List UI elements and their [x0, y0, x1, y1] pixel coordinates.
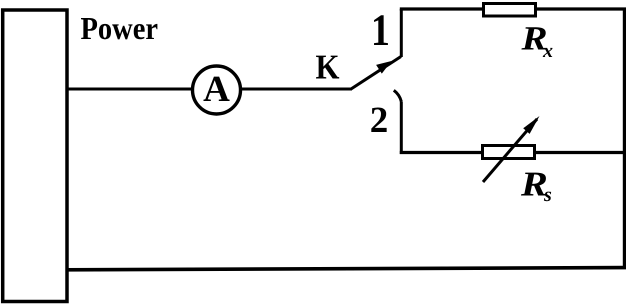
resistor Rx box [484, 4, 536, 17]
ammeter A1 circle [193, 66, 241, 114]
svg-text:K: K [316, 48, 340, 87]
battery / power supply box [3, 10, 67, 302]
switch blade arrowhead [376, 61, 391, 74]
contact 1 lead (vertical from top wire) [400, 9, 403, 57]
svg-text:2: 2 [370, 100, 389, 141]
bottom wire [66, 268, 626, 270]
rheostat Rs box [483, 146, 535, 159]
wire: ammeter to switch pivot [241, 88, 353, 91]
wire: battery to ammeter [66, 88, 194, 91]
contact 2 hook [394, 90, 402, 101]
svg-text:s: s [543, 184, 552, 206]
right vertical wire [623, 9, 626, 268]
switch K blade [351, 57, 401, 90]
svg-text:Power: Power [81, 10, 159, 46]
middle wire (Rs branch) [400, 151, 625, 154]
rheostat Rs arrow shaft [483, 119, 537, 182]
svg-text:x: x [542, 40, 553, 62]
rheostat Rs arrowhead [523, 116, 539, 134]
top wire [400, 7, 626, 10]
svg-text:A: A [203, 69, 230, 110]
svg-text:1: 1 [371, 5, 390, 55]
contact 2 lead down to middle wire [400, 102, 403, 155]
